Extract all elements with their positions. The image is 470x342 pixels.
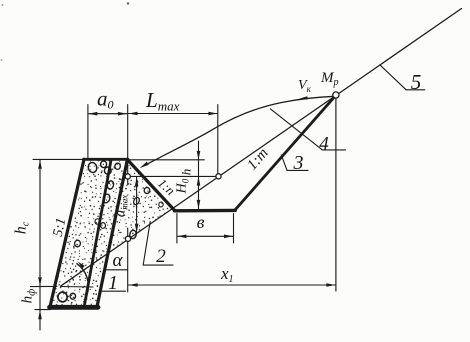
svg-text:h: h: [179, 169, 194, 176]
svg-text:4: 4: [319, 134, 329, 155]
svg-text:2: 2: [156, 246, 166, 267]
svg-text:1: 1: [108, 272, 118, 294]
svg-text:α: α: [113, 250, 124, 271]
svg-text:5: 5: [411, 70, 422, 94]
svg-text:3: 3: [293, 152, 304, 174]
svg-text:в: в: [197, 212, 205, 232]
